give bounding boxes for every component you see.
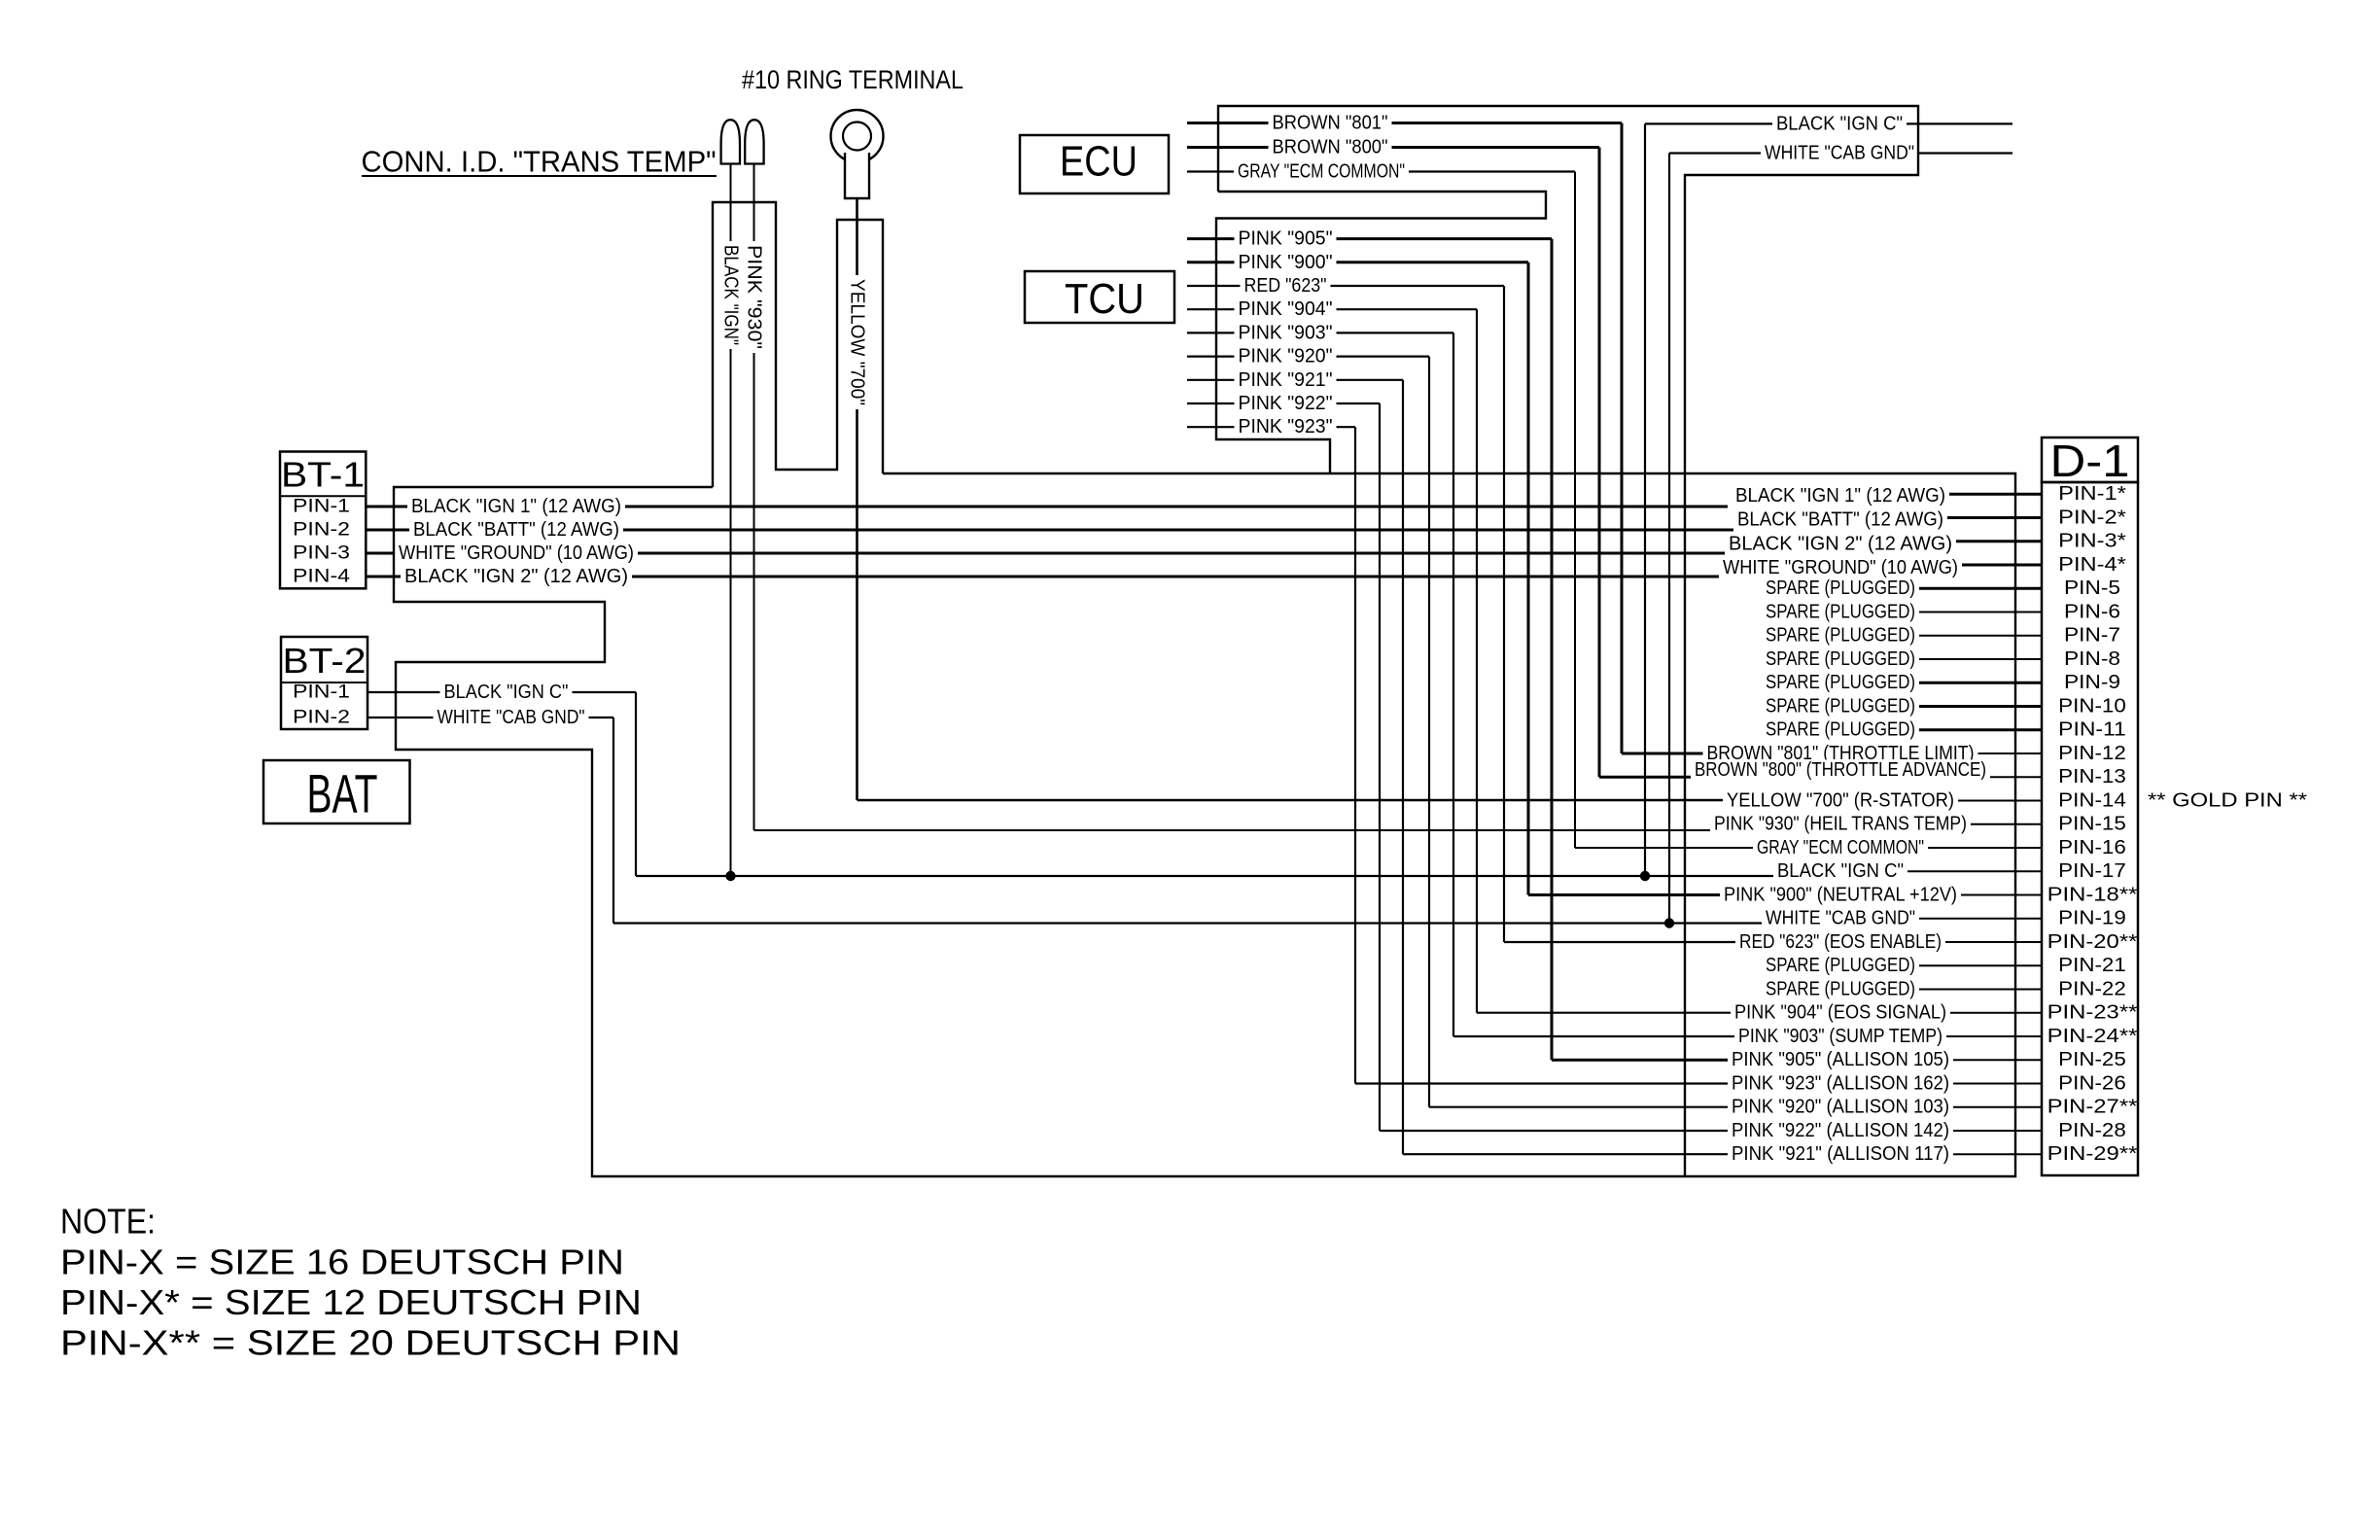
svg-text:PIN-26: PIN-26	[2058, 1073, 2126, 1095]
wire RED "623" run to D-1	[1504, 941, 1818, 943]
wire label PINK "921" (ALLISON 117) at D-1 PIN-29	[1728, 1143, 1953, 1165]
svg-text:PIN-X** = SIZE 20 DEUTSCH PIN: PIN-X** = SIZE 20 DEUTSCH PIN	[60, 1323, 681, 1363]
wire stub to D-1 PIN-27	[1901, 1106, 2042, 1108]
wire label PINK "904" (EOS SIGNAL) at D-1 PIN-23	[1731, 1002, 1950, 1024]
battery BAT box	[263, 760, 410, 823]
wire PINK "920" from TCU	[1187, 356, 1429, 358]
wire BLACK "BATT" 12AWG from BT-1 PIN-2 to D-1	[366, 529, 1733, 532]
svg-text:PIN-15: PIN-15	[2058, 814, 2126, 835]
wire PINK "900" run to D-1	[1528, 893, 1818, 896]
wire PINK "921" run to D-1	[1403, 1153, 1818, 1155]
wire PINK "904" run to D-1	[1477, 1012, 1818, 1014]
underline CONN. I.D. label	[362, 175, 717, 177]
svg-text:SPARE (PLUGGED): SPARE (PLUGGED)	[1766, 955, 1915, 976]
wire label SPARE (PLUGGED) at D-1 PIN-22	[1762, 979, 1919, 1000]
svg-text:BROWN "800": BROWN "800"	[1273, 137, 1388, 158]
wire label SPARE (PLUGGED) at D-1 PIN-21	[1762, 955, 1919, 976]
wire WHITE "CAB GND" vertical drop	[612, 717, 614, 924]
wire label SPARE (PLUGGED) at D-1 PIN-11	[1762, 719, 1919, 741]
wire GRAY "ECM COMMON" vertical drop	[1574, 172, 1576, 849]
wire label WHITE "CAB GND" at D-1 PIN-19	[1762, 908, 1919, 929]
svg-text:BT-1: BT-1	[281, 455, 365, 495]
wire PINK "923" from TCU	[1187, 426, 1355, 428]
svg-text:WHITE "GROUND" (10 AWG): WHITE "GROUND" (10 AWG)	[399, 542, 634, 564]
svg-text:YELLOW "700" (R-STATOR): YELLOW "700" (R-STATOR)	[1727, 790, 1954, 812]
svg-text:WHITE "GROUND" (10 AWG): WHITE "GROUND" (10 AWG)	[1723, 557, 1958, 578]
wire BROWN "800" run to D-1 PIN-13	[1599, 776, 1818, 779]
wire BLACK "IGN C" to cab (top right)	[1645, 122, 2012, 124]
wire stub to D-1 PIN-9	[1901, 682, 2042, 684]
wire BROWN "801" vertical drop	[1621, 123, 1624, 754]
wire label SPARE (PLUGGED) at D-1 PIN-10	[1762, 696, 1919, 717]
svg-text:PIN-18**: PIN-18**	[2047, 885, 2138, 906]
wire BLACK "IGN" vertical from bullet 1	[730, 164, 732, 877]
wire WHITE "CAB GND" to cab (top right)	[1669, 152, 2012, 154]
wire PINK "922" from TCU	[1187, 402, 1380, 404]
svg-text:PIN-5: PIN-5	[2064, 577, 2120, 599]
wire label PINK "923" (TCU)	[1235, 416, 1337, 437]
wire label WHITE "GROUND" (10 AWG) at D-1 PIN-4	[1719, 557, 1962, 578]
svg-text:BLACK "IGN 1" (12 AWG): BLACK "IGN 1" (12 AWG)	[1735, 485, 1945, 507]
wire label BROWN "801" (THROTTLE LIMIT) at D-1 PIN-12	[1703, 743, 1978, 764]
wire PINK "921" from TCU	[1187, 379, 1403, 381]
wire harness outline - bullet connectors and ring terminal bundle	[713, 202, 883, 487]
wire PINK "923" vertical drop	[1354, 427, 1356, 1083]
wire label PINK "903" (SUMP TEMP) at D-1 PIN-24	[1734, 1026, 1946, 1047]
ring terminal #10 (YELLOW "700")	[831, 110, 884, 162]
wire label PINK "923" (ALLISON 162) at D-1 PIN-26	[1728, 1073, 1953, 1095]
svg-text:PINK "922" (ALLISON 142): PINK "922" (ALLISON 142)	[1732, 1120, 1949, 1141]
wire WHITE "GROUND" 10AWG from BT-1 PIN-3 to D-1	[366, 552, 1728, 555]
wire stub to D-1 PIN-17	[1901, 870, 2042, 872]
wire stub to D-1 PIN-12	[1901, 752, 2042, 754]
wire BLACK "IGN C" vertical drop to junction	[1644, 123, 1646, 876]
wire stub to D-1 PIN-8	[1901, 658, 2042, 660]
svg-text:SPARE (PLUGGED): SPARE (PLUGGED)	[1766, 672, 1915, 693]
svg-text:BT-2: BT-2	[283, 641, 367, 681]
svg-text:PIN-2: PIN-2	[293, 708, 350, 728]
svg-text:D-1: D-1	[2050, 436, 2130, 486]
wire stub to D-1 PIN-5	[1901, 587, 2042, 590]
wire stub to D-1 PIN-16	[1901, 847, 2042, 849]
wire label SPARE (PLUGGED) at D-1 PIN-9	[1762, 672, 1919, 693]
wire PINK "930" vertical from bullet 2	[753, 164, 755, 831]
wire PINK "905" from TCU	[1187, 237, 1552, 240]
wire label BLACK "IGN 1" (12 AWG) at D-1 PIN-1	[1732, 485, 1949, 507]
wire stub to D-1 PIN-24	[1901, 1035, 2042, 1037]
svg-text:PINK "922": PINK "922"	[1239, 393, 1333, 414]
svg-text:RED "623" (EOS ENABLE): RED "623" (EOS ENABLE)	[1739, 931, 1942, 953]
svg-text:#10 RING TERMINAL: #10 RING TERMINAL	[742, 65, 963, 94]
svg-text:PINK "900": PINK "900"	[1239, 252, 1333, 273]
svg-text:PIN-25: PIN-25	[2058, 1049, 2126, 1070]
svg-text:PIN-19: PIN-19	[2058, 908, 2126, 929]
wire label BLACK "BATT" 12AWG (left)	[409, 519, 623, 541]
wire stub to D-1 PIN-11	[1901, 728, 2042, 731]
wire stub to D-1 PIN-14	[1901, 800, 2042, 802]
svg-text:RED "623": RED "623"	[1244, 275, 1327, 297]
svg-text:BLACK "IGN C": BLACK "IGN C"	[1777, 860, 1904, 882]
svg-text:SPARE (PLUGGED): SPARE (PLUGGED)	[1766, 719, 1915, 741]
wire stub to D-1 PIN-1	[1901, 493, 2042, 496]
connector D-1 pin box	[2042, 482, 2138, 1175]
svg-text:GRAY "ECM COMMON": GRAY "ECM COMMON"	[1238, 161, 1405, 183]
svg-text:PINK "900" (NEUTRAL +12V): PINK "900" (NEUTRAL +12V)	[1724, 885, 1957, 906]
wire BLACK "IGN C" vertical drop	[635, 692, 637, 876]
wire BLACK "IGN C" junction run to D-1 PIN-17	[636, 875, 1828, 877]
wire stub to D-1 PIN-22	[1901, 989, 2042, 991]
svg-text:PIN-4*: PIN-4*	[2058, 554, 2126, 576]
wire stub to D-1 PIN-25	[1901, 1059, 2042, 1061]
wire PINK "904" vertical drop	[1476, 309, 1478, 1012]
svg-text:** GOLD PIN **: ** GOLD PIN **	[2148, 790, 2307, 812]
wire label BROWN "800" (THROTTLE ADVANCE) at D-1 PIN-13	[1691, 759, 1990, 781]
wire label SPARE (PLUGGED) at D-1 PIN-8	[1762, 648, 1919, 670]
wire label BLACK "IGN C" (BT-2)	[440, 682, 573, 703]
svg-text:GRAY "ECM COMMON": GRAY "ECM COMMON"	[1757, 837, 1924, 858]
wire label WHITE "GROUND" 10AWG (left)	[395, 542, 638, 564]
wire label PINK "921" (TCU)	[1235, 369, 1337, 391]
svg-text:PIN-1: PIN-1	[293, 497, 350, 517]
svg-text:PINK "923" (ALLISON 162): PINK "923" (ALLISON 162)	[1732, 1073, 1949, 1095]
junction dot BLACK "IGN C" drop	[1640, 871, 1650, 881]
svg-text:PIN-2: PIN-2	[293, 520, 350, 541]
svg-text:PINK "920": PINK "920"	[1239, 346, 1333, 367]
svg-text:BLACK "BATT" (12 AWG): BLACK "BATT" (12 AWG)	[1737, 509, 1943, 531]
wire WHITE "CAB GND" vertical drop to junction	[1668, 154, 1670, 924]
wire label PINK "922" (TCU)	[1235, 393, 1337, 414]
wire RED "623" from TCU	[1187, 285, 1504, 287]
wire stub to D-1 PIN-23	[1901, 1012, 2042, 1014]
svg-text:PINK "921": PINK "921"	[1239, 369, 1333, 391]
svg-text:WHITE "CAB GND": WHITE "CAB GND"	[1765, 143, 1914, 164]
svg-text:PIN-24**: PIN-24**	[2047, 1026, 2138, 1047]
svg-text:PINK "904" (EOS SIGNAL): PINK "904" (EOS SIGNAL)	[1734, 1002, 1946, 1024]
wire label BLACK "IGN 2" (12 AWG) at D-1 PIN-3	[1725, 534, 1956, 555]
svg-text:PIN-1*: PIN-1*	[2058, 483, 2126, 505]
wire PINK "923" run to D-1	[1355, 1082, 1818, 1084]
wire stub to D-1 PIN-19	[1901, 918, 2042, 920]
svg-text:SPARE (PLUGGED): SPARE (PLUGGED)	[1766, 648, 1915, 670]
wire GRAY "ECM COMMON" from ECU	[1187, 170, 1575, 172]
wire PINK "903" from TCU	[1187, 332, 1453, 333]
svg-text:PIN-4: PIN-4	[293, 567, 351, 587]
svg-text:PIN-29**: PIN-29**	[2047, 1143, 2138, 1165]
svg-text:PINK "920" (ALLISON 103): PINK "920" (ALLISON 103)	[1732, 1097, 1949, 1118]
wire label WHITE "CAB GND" (top right)	[1761, 143, 1918, 164]
connector D-1 title box	[2042, 437, 2138, 482]
wire label YELLOW "700" (R-STATOR) at D-1 PIN-14	[1723, 790, 1958, 812]
wire label GRAY "ECM COMMON" (ECU)	[1234, 161, 1409, 183]
svg-text:PIN-1: PIN-1	[293, 682, 350, 703]
connector BT-2 title divider	[281, 682, 367, 683]
wire stub to D-1 PIN-28	[1901, 1130, 2042, 1132]
wire stub to D-1 PIN-2	[1901, 516, 2042, 519]
wire PINK "903" run to D-1	[1453, 1035, 1818, 1037]
wire PINK "905" vertical drop	[1551, 239, 1554, 1061]
svg-text:SPARE (PLUGGED): SPARE (PLUGGED)	[1766, 625, 1915, 647]
wire label RED "623" (TCU)	[1241, 275, 1331, 297]
svg-text:PIN-X = SIZE 16 DEUTSCH PIN: PIN-X = SIZE 16 DEUTSCH PIN	[60, 1242, 624, 1281]
svg-text:PIN-22: PIN-22	[2058, 979, 2126, 1000]
wire stub to D-1 PIN-26	[1901, 1083, 2042, 1085]
wire PINK "904" from TCU	[1187, 308, 1477, 310]
svg-text:BROWN "801": BROWN "801"	[1273, 113, 1388, 134]
wire GRAY "ECM COMMON" run to D-1 PIN-16	[1575, 847, 1818, 849]
svg-text:PIN-10: PIN-10	[2058, 696, 2126, 717]
svg-text:PINK "921" (ALLISON 117): PINK "921" (ALLISON 117)	[1732, 1143, 1949, 1165]
wire stub to D-1 PIN-13	[1901, 776, 2042, 778]
svg-text:PINK "930": PINK "930"	[744, 245, 765, 349]
svg-text:PIN-3: PIN-3	[293, 543, 350, 564]
svg-text:ECU: ECU	[1060, 138, 1137, 186]
svg-text:PINK "903" (SUMP TEMP): PINK "903" (SUMP TEMP)	[1738, 1026, 1942, 1047]
wire label BLACK "IGN 1" 12AWG (left)	[407, 496, 625, 517]
svg-text:PINK "930" (HEIL TRANS TEMP): PINK "930" (HEIL TRANS TEMP)	[1714, 814, 1967, 835]
svg-text:PIN-13: PIN-13	[2058, 766, 2126, 787]
svg-text:PINK "905" (ALLISON 105): PINK "905" (ALLISON 105)	[1732, 1049, 1949, 1070]
svg-text:BLACK "BATT" (12 AWG): BLACK "BATT" (12 AWG)	[413, 519, 619, 541]
wire label BLACK "IGN 2" 12AWG (left)	[401, 566, 632, 587]
wire YELLOW "700" horizontal run to D-1 PIN-14	[857, 799, 1809, 802]
svg-text:PIN-14: PIN-14	[2058, 790, 2126, 812]
svg-text:PIN-9: PIN-9	[2064, 672, 2120, 693]
wire harness outline - top bus ECU to cab wires	[1218, 106, 1918, 1176]
svg-text:NOTE:: NOTE:	[60, 1201, 156, 1241]
wire label PINK "905" (TCU)	[1235, 228, 1337, 250]
svg-text:PIN-27**: PIN-27**	[2047, 1097, 2138, 1118]
svg-text:PIN-7: PIN-7	[2064, 625, 2120, 647]
wire PINK "922" vertical drop	[1379, 403, 1381, 1131]
wire label PINK "904" (TCU)	[1235, 298, 1337, 320]
wire label RED "623" (EOS ENABLE) at D-1 PIN-20	[1735, 931, 1945, 953]
wire PINK "900" from TCU	[1187, 261, 1528, 263]
svg-text:PIN-17: PIN-17	[2058, 860, 2126, 882]
wire PINK "900" vertical drop	[1527, 262, 1530, 895]
svg-text:PINK "904": PINK "904"	[1239, 298, 1333, 320]
wire label SPARE (PLUGGED) at D-1 PIN-6	[1762, 602, 1919, 623]
svg-text:PIN-28: PIN-28	[2058, 1120, 2126, 1141]
wire PINK "921" vertical drop	[1402, 380, 1404, 1154]
wire WHITE "CAB GND" junction run to D-1 PIN-19	[613, 922, 1828, 924]
svg-text:BLACK "IGN 2" (12 AWG): BLACK "IGN 2" (12 AWG)	[404, 566, 628, 587]
wire label GRAY "ECM COMMON" at D-1 PIN-16	[1753, 837, 1928, 858]
bullet terminal 2 (PINK "930")	[745, 120, 763, 163]
wire label PINK "900" (TCU)	[1235, 252, 1337, 273]
wire label BLACK "IGN C" (top right)	[1772, 114, 1907, 135]
svg-text:PIN-23**: PIN-23**	[2047, 1002, 2138, 1024]
wire label BLACK "IGN" (rotated)	[720, 241, 742, 349]
bullet terminal 1 (BLACK "IGN")	[721, 120, 740, 163]
wire PINK "920" vertical drop	[1428, 357, 1430, 1107]
svg-text:BLACK "IGN 1" (12 AWG): BLACK "IGN 1" (12 AWG)	[411, 496, 621, 517]
svg-text:BAT: BAT	[307, 763, 378, 824]
svg-text:BLACK "IGN 2" (12 AWG): BLACK "IGN 2" (12 AWG)	[1729, 534, 1952, 555]
svg-text:SPARE (PLUGGED): SPARE (PLUGGED)	[1766, 696, 1915, 717]
wire label BROWN "801" (ECU)	[1269, 113, 1392, 134]
svg-text:PIN-3*: PIN-3*	[2058, 531, 2126, 552]
wire label PINK "920" (ALLISON 103) at D-1 PIN-27	[1728, 1097, 1953, 1118]
svg-text:BLACK "IGN": BLACK "IGN"	[720, 245, 742, 345]
svg-text:BLACK "IGN C": BLACK "IGN C"	[1776, 113, 1903, 134]
svg-text:WHITE "CAB GND": WHITE "CAB GND"	[1766, 908, 1915, 929]
svg-text:SPARE (PLUGGED): SPARE (PLUGGED)	[1766, 979, 1915, 1000]
wire BROWN "801" run to D-1 PIN-12	[1622, 752, 1818, 755]
wire label PINK "922" (ALLISON 142) at D-1 PIN-28	[1728, 1120, 1953, 1141]
wire label BLACK "IGN C" at D-1 PIN-17	[1773, 860, 1907, 882]
svg-text:WHITE "CAB GND": WHITE "CAB GND"	[437, 707, 585, 728]
wire BROWN "800" vertical drop	[1598, 148, 1601, 778]
wire RED "623" vertical drop	[1503, 286, 1505, 942]
wire stub to D-1 PIN-4	[1901, 564, 2042, 567]
junction dot BLACK "IGN" / BLACK "IGN C"	[725, 871, 735, 881]
svg-text:PIN-X* = SIZE 12 DEUTSCH PIN: PIN-X* = SIZE 12 DEUTSCH PIN	[60, 1282, 642, 1322]
wire BLACK "IGN C" from BT-2 PIN-1	[367, 691, 636, 693]
wire stub to D-1 PIN-18	[1901, 894, 2042, 896]
wire label YELLOW "700" (rotated)	[847, 275, 868, 409]
junction dot WHITE "CAB GND" drop	[1664, 918, 1674, 927]
svg-text:SPARE (PLUGGED): SPARE (PLUGGED)	[1766, 577, 1915, 599]
wire WHITE "CAB GND" from BT-2 PIN-2	[367, 717, 613, 718]
wire PINK "922" run to D-1	[1380, 1130, 1818, 1132]
svg-text:PIN-11: PIN-11	[2058, 719, 2126, 741]
wire label WHITE "CAB GND" (BT-2)	[434, 707, 589, 728]
wire YELLOW "700" vertical from ring terminal	[856, 198, 858, 800]
svg-text:SPARE (PLUGGED): SPARE (PLUGGED)	[1766, 602, 1915, 623]
wire harness outline - ECU/TCU bundle	[1216, 192, 1546, 473]
wire stub to D-1 PIN-29	[1901, 1153, 2042, 1155]
svg-text:PIN-16: PIN-16	[2058, 837, 2126, 858]
svg-text:PIN-12: PIN-12	[2058, 743, 2126, 764]
wire harness outline - BT-1/BT-2 to D-1 bundle	[394, 473, 2015, 1176]
wire stub to D-1 PIN-15	[1901, 823, 2042, 825]
wire stub to D-1 PIN-3	[1901, 540, 2042, 542]
svg-text:PINK "905": PINK "905"	[1239, 228, 1333, 250]
wire label PINK "920" (TCU)	[1235, 346, 1337, 367]
svg-text:BROWN "800" (THROTTLE ADVANCE): BROWN "800" (THROTTLE ADVANCE)	[1695, 759, 1986, 781]
svg-text:CONN. I.D. "TRANS TEMP": CONN. I.D. "TRANS TEMP"	[362, 145, 717, 179]
wire stub to D-1 PIN-6	[1901, 612, 2042, 613]
wire label BLACK "BATT" (12 AWG) at D-1 PIN-2	[1733, 509, 1947, 531]
wire stub to D-1 PIN-20	[1901, 941, 2042, 943]
wire label SPARE (PLUGGED) at D-1 PIN-7	[1762, 625, 1919, 647]
svg-text:TCU: TCU	[1065, 275, 1144, 323]
wire label PINK "930" (rotated)	[744, 241, 765, 353]
wire PINK "905" run to D-1	[1552, 1059, 1818, 1062]
wire stub to D-1 PIN-10	[1901, 705, 2042, 708]
svg-text:PIN-2*: PIN-2*	[2058, 507, 2126, 529]
svg-text:PINK "903": PINK "903"	[1239, 322, 1333, 343]
wire BLACK "IGN 2" 12AWG from BT-1 PIN-4 to D-1	[366, 576, 1721, 578]
wire stub to D-1 PIN-7	[1901, 635, 2042, 637]
svg-text:BLACK "IGN C": BLACK "IGN C"	[444, 682, 569, 703]
svg-text:PIN-21: PIN-21	[2058, 955, 2126, 976]
wire BROWN "800" from ECU	[1187, 146, 1599, 149]
wire BLACK "IGN 1" 12AWG from BT-1 PIN-1 to D-1	[366, 506, 1728, 508]
wire PINK "920" run to D-1	[1429, 1106, 1818, 1108]
svg-text:PIN-8: PIN-8	[2064, 648, 2120, 670]
wire label BROWN "800" (ECU)	[1269, 137, 1392, 158]
svg-text:PINK "923": PINK "923"	[1239, 416, 1333, 437]
wire label PINK "900" (NEUTRAL +12V) at D-1 PIN-18	[1720, 885, 1961, 906]
connector BT-1 title divider	[280, 495, 366, 497]
wire PINK "903" vertical drop	[1452, 332, 1454, 1036]
svg-text:YELLOW "700": YELLOW "700"	[847, 279, 868, 405]
wire label PINK "930" (HEIL TRANS TEMP) at D-1 PIN-15	[1710, 814, 1971, 835]
wire BROWN "801" from ECU	[1187, 122, 1622, 124]
svg-text:PIN-6: PIN-6	[2064, 602, 2120, 623]
wire label SPARE (PLUGGED) at D-1 PIN-5	[1762, 577, 1919, 599]
svg-text:PIN-20**: PIN-20**	[2047, 931, 2138, 953]
connector BT-2 box	[281, 637, 367, 729]
wire label PINK "903" (TCU)	[1235, 323, 1337, 344]
wire PINK "930" horizontal run to D-1 PIN-15	[754, 829, 1712, 831]
wire stub to D-1 PIN-21	[1901, 964, 2042, 966]
ECU box	[1020, 135, 1169, 193]
connector BT-1 box	[280, 452, 366, 589]
wire label PINK "905" (ALLISON 105) at D-1 PIN-25	[1728, 1049, 1953, 1070]
TCU box	[1025, 271, 1174, 323]
